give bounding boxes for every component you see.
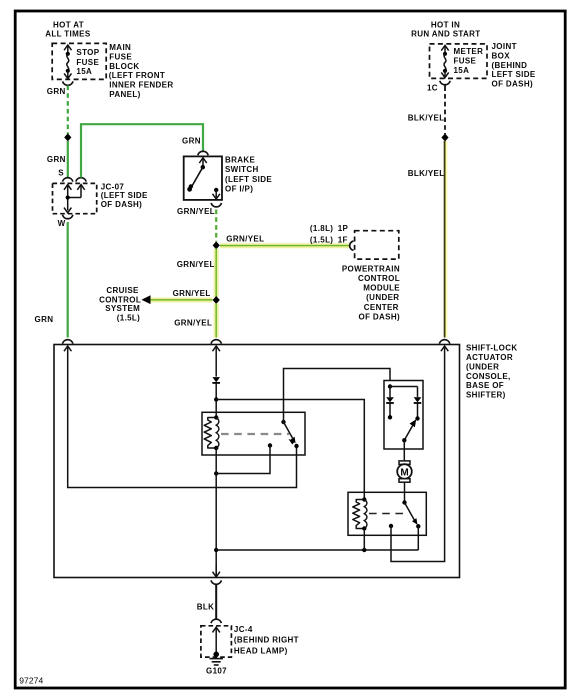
relay 1 switch (268, 420, 299, 448)
svg-text:(UNDER: (UNDER (466, 362, 499, 371)
connector cap at brake switch top (198, 151, 208, 155)
svg-text:BOX: BOX (492, 52, 511, 61)
wire motor to relay 2 (404, 482, 406, 502)
svg-text:15A: 15A (76, 67, 92, 76)
svg-text:97274: 97274 (19, 676, 43, 686)
pin arrow GRN/YEL entry (213, 346, 220, 351)
svg-text:FUSE: FUSE (76, 58, 99, 67)
svg-text:GRN: GRN (47, 87, 66, 96)
svg-text:JOINT: JOINT (492, 42, 517, 51)
value label METER FUSE 15A (454, 47, 484, 75)
svg-text:LEFT SIDE: LEFT SIDE (492, 70, 536, 79)
value label STOP FUSE 15A (76, 48, 99, 76)
fuse block box (dashed) STOP FUSE (52, 43, 106, 79)
svg-text:(BEHIND: (BEHIND (492, 61, 528, 70)
connector cap at JC-4 (211, 619, 221, 623)
wire GRN/YEL down to actuator box (214, 303, 219, 337)
svg-text:G107: G107 (206, 667, 227, 676)
svg-text:STOP: STOP (76, 48, 99, 57)
svg-text:OF DASH): OF DASH) (101, 200, 142, 209)
diode pack box (384, 381, 423, 450)
label JC-4 (BEHIND RIGHT HEAD LAMP) (234, 625, 299, 655)
relay 2 mechanical link (dashed) (369, 513, 404, 515)
label SHIFT-LOCK ACTUATOR (UNDER CONSOLE, BASE OF SHIFTER) (466, 343, 518, 399)
wire GRN/YEL dashed from brake switch to splice (215, 210, 217, 242)
junction connector JC-07 (dashed box) (53, 183, 97, 213)
svg-text:(1.5L): (1.5L) (310, 235, 333, 244)
connector cup below stop fuse (63, 81, 73, 85)
svg-text:BLK/YEL: BLK/YEL (408, 113, 445, 122)
wire GRN from JC-07 right pin up and over to brake switch (81, 124, 203, 177)
label JOINT BOX (BEHIND LEFT SIDE OF DASH) (492, 42, 536, 88)
svg-text:HOT IN: HOT IN (431, 21, 460, 30)
svg-text:ACTUATOR: ACTUATOR (466, 353, 513, 362)
wire diode pack switch to motor (403, 440, 405, 462)
wire relay 1 pivot up and over to diode pack (284, 369, 391, 423)
node junction at relay2 coil (362, 548, 366, 552)
connector cup below actuator box (211, 580, 221, 584)
svg-text:GRN/YEL: GRN/YEL (177, 260, 215, 269)
svg-text:INNER FENDER: INNER FENDER (109, 81, 173, 90)
svg-text:(LEFT SIDE: (LEFT SIDE (225, 175, 272, 184)
wire internal GRN/YEL entry to diode (215, 346, 217, 377)
svg-text:RUN AND START: RUN AND START (411, 29, 480, 38)
relay 2 coil L2 (353, 497, 367, 530)
connector caps at actuator box top (62, 340, 72, 344)
relay 1 box (202, 412, 305, 455)
svg-text:POWERTRAIN: POWERTRAIN (342, 264, 400, 273)
relay 2 switch (389, 500, 421, 528)
svg-text:METER: METER (454, 47, 484, 56)
wire GRN solid down to JC-07 (67, 141, 69, 178)
svg-text:GRN: GRN (47, 155, 66, 164)
brake switch box (184, 156, 222, 200)
svg-text:15A: 15A (454, 66, 470, 75)
wire internal BLK/YEL entry to relay 2 contact (391, 346, 445, 562)
label POWERTRAIN CONTROL MODULE (UNDER CENTER OF DASH) (342, 264, 400, 321)
arrow to cruise control system (142, 295, 151, 304)
fuse meter-fuse element (441, 45, 448, 77)
svg-text:SWITCH: SWITCH (225, 165, 259, 174)
connector cup below JC-07 (62, 215, 72, 219)
label HOT AT ALL TIMES (45, 21, 91, 39)
svg-text:CENTER: CENTER (364, 303, 399, 312)
svg-text:S: S (58, 168, 64, 177)
svg-text:M: M (400, 467, 408, 478)
svg-text:GRN/YEL: GRN/YEL (173, 289, 211, 298)
svg-text:CONTROL: CONTROL (358, 274, 400, 283)
svg-text:OF DASH): OF DASH) (359, 313, 400, 322)
svg-text:1C: 1C (427, 83, 438, 92)
wire relay 1 left contact to coil line (216, 446, 270, 474)
svg-text:BLOCK: BLOCK (109, 62, 139, 71)
pin arrow GRN entry (64, 346, 71, 351)
svg-text:HEAD LAMP): HEAD LAMP) (234, 646, 288, 655)
svg-text:MAIN: MAIN (109, 43, 131, 52)
splice diamond BLK/YEL (441, 134, 448, 142)
svg-text:HOT AT: HOT AT (53, 21, 84, 30)
svg-text:ALL TIMES: ALL TIMES (45, 29, 91, 38)
wire GRN/YEL horizontal to PCM (220, 243, 349, 248)
wire branch to relay 2 coil (216, 400, 364, 501)
svg-text:JC-4: JC-4 (234, 625, 253, 634)
diode pack internals: diodes D2 D3 and switch (386, 384, 421, 442)
svg-text:BRAKE: BRAKE (225, 156, 256, 165)
svg-text:(1.5L): (1.5L) (117, 313, 140, 322)
svg-text:BLK/YEL: BLK/YEL (408, 169, 445, 178)
svg-text:BASE OF: BASE OF (466, 381, 504, 390)
wire GRN down to actuator box (67, 222, 69, 338)
svg-text:OF I/P): OF I/P) (225, 184, 253, 193)
shift-lock actuator box (54, 345, 460, 578)
connector caps at JC-07 top (62, 178, 72, 182)
wire GRN/YEL horizontal to cruise arrow (150, 297, 213, 302)
ground G107 (210, 659, 223, 665)
svg-text:1P: 1P (338, 224, 349, 233)
svg-text:MODULE: MODULE (363, 284, 400, 293)
svg-text:(UNDER: (UNDER (366, 293, 399, 302)
PCM pin connector arc (350, 241, 354, 250)
node junction on main line (214, 471, 218, 475)
svg-text:OF DASH): OF DASH) (492, 79, 533, 88)
joint box fuse box (dashed) METER FUSE (430, 44, 488, 79)
label CRUISE CONTROL SYSTEM (1.5L) (99, 286, 141, 322)
svg-text:CONSOLE,: CONSOLE, (466, 372, 511, 381)
splice diamond GRN/YEL node (213, 241, 220, 249)
JC-4 internal pin (213, 627, 220, 657)
node junction lower (214, 548, 218, 552)
label MAIN FUSE BLOCK (109, 43, 174, 99)
svg-text:W: W (58, 219, 66, 228)
connector cup below meter fuse (440, 81, 450, 85)
svg-text:CONTROL: CONTROL (99, 295, 141, 304)
svg-text:SYSTEM: SYSTEM (105, 304, 140, 313)
label HOT IN RUN AND START (411, 21, 480, 39)
powertrain control module PCM (dashed box) (355, 231, 399, 259)
wire BLK down to JC-4 (215, 584, 217, 619)
svg-text:SHIFTER): SHIFTER) (466, 391, 506, 400)
wire relay 2 coil to bottom bus (363, 529, 365, 551)
wire GRN/YEL vertical between splices (214, 249, 219, 297)
label JC-07 (LEFT SIDE OF DASH) (101, 182, 148, 209)
svg-text:GRN/YEL: GRN/YEL (226, 234, 264, 243)
junction connector JC-4 (dashed box) (201, 626, 232, 657)
svg-text:1F: 1F (338, 235, 348, 244)
svg-text:GRN/YEL: GRN/YEL (177, 207, 215, 216)
svg-text:(1.8L): (1.8L) (310, 224, 333, 233)
pin arrow exit at box bottom (215, 565, 217, 577)
wire BLK/YEL solid down to actuator box (445, 141, 446, 338)
svg-text:GRN: GRN (35, 315, 54, 324)
svg-text:(BEHIND RIGHT: (BEHIND RIGHT (234, 636, 299, 645)
svg-text:SHIFT-LOCK: SHIFT-LOCK (466, 343, 518, 352)
svg-text:GRN/YEL: GRN/YEL (174, 319, 212, 328)
label BRAKE SWITCH (LEFT SIDE OF I/P) (225, 156, 272, 194)
motor M1 (397, 461, 412, 482)
svg-text:FUSE: FUSE (454, 57, 477, 66)
splice diamond (GRN) (64, 133, 71, 141)
svg-text:PANEL): PANEL) (109, 90, 140, 99)
wire internal from GRN entry down and right to relay 1 contact (68, 346, 297, 488)
relay 1 mechanical link (dashed) (221, 433, 289, 435)
relay 1 coil L1 (204, 415, 219, 450)
wire bottom bus to relay 2 (216, 549, 418, 551)
labels (1.8L) 1P / (1.5L) 1F (310, 224, 349, 244)
svg-text:GRN: GRN (182, 137, 201, 146)
svg-text:(LEFT SIDE: (LEFT SIDE (101, 191, 148, 200)
svg-text:(LEFT FRONT: (LEFT FRONT (109, 71, 165, 80)
svg-text:FUSE: FUSE (109, 52, 132, 61)
relay 2 box (348, 492, 426, 535)
node junction to relay 2 coil branch (214, 397, 218, 401)
fuse F stop-fuse element (64, 45, 71, 79)
pin arrow BLK/YEL entry (441, 346, 448, 351)
wire main line relay1 coil down to exit (215, 448, 217, 577)
svg-text:CRUISE: CRUISE (106, 286, 139, 295)
wire relay 2 contact to bottom bus (417, 526, 419, 550)
wire GRN dashed from stop fuse down (67, 86, 69, 135)
svg-text:BLK: BLK (197, 603, 215, 612)
diode D1 (212, 377, 220, 383)
wire diode to relay 1 coil (215, 384, 217, 419)
splice diamond (cruise) (213, 296, 220, 304)
wire BLK/YEL dashed (444, 85, 446, 92)
brake switch internals (187, 158, 220, 199)
connector cup below brake switch (211, 203, 221, 207)
JC-07 internal pins (64, 185, 85, 213)
